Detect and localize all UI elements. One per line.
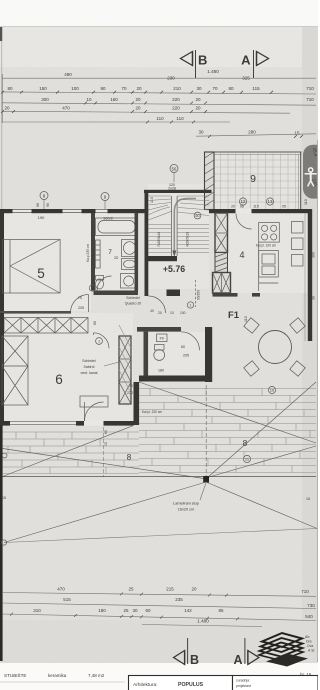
svg-text:85: 85: [218, 608, 224, 613]
svg-text:B: B: [190, 653, 199, 667]
kitchen stove: [259, 223, 280, 243]
grid bubble 9: [101, 193, 109, 210]
svg-text:7,48 m2: 7,48 m2: [88, 673, 105, 678]
upper vent shaft column: [215, 213, 228, 253]
main top exterior wall right part: [209, 209, 312, 213]
svg-text:Ka.p 235 cm: Ka.p 235 cm: [86, 244, 90, 262]
terrace 9 left wall hatched: [205, 152, 215, 210]
svg-text:16x20 cm: 16x20 cm: [178, 508, 194, 512]
svg-text:325: 325: [242, 76, 250, 81]
top dim line row 2: [2, 86, 316, 94]
room 6 desk: [80, 396, 108, 407]
terrace room 9 tile grid: [205, 152, 302, 210]
bath bottom wall: [94, 291, 139, 296]
terrace door arc from room: [85, 402, 104, 421]
svg-text:180: 180: [98, 608, 106, 613]
svg-text:A St.: A St.: [307, 649, 315, 653]
room 5 bed: [3, 240, 61, 294]
svg-text:210: 210: [173, 86, 181, 91]
left edge top dark mark: [0, 27, 2, 41]
svg-text:300: 300: [312, 252, 316, 258]
bath bidet unit: [122, 259, 138, 270]
section marker A bottom: [233, 638, 258, 667]
left edge dim connector: [1, 74, 3, 123]
svg-text:50: 50: [195, 214, 199, 218]
lower brace right: [206, 482, 317, 529]
svg-text:20: 20: [231, 205, 235, 209]
svg-text:115: 115: [252, 86, 260, 91]
paper tone: darker right column: [302, 27, 318, 664]
svg-text:30: 30: [132, 608, 138, 613]
svg-text:A: A: [233, 653, 242, 667]
stair steps upper winders right: [178, 196, 210, 216]
leader line schiedel: [104, 362, 119, 366]
corridor lower wall segment: [167, 290, 181, 297]
door arc room 6 top right: [94, 333, 110, 349]
room interior lighter tones: [4, 153, 307, 421]
svg-text:100: 100: [71, 86, 79, 91]
svg-text:7: 7: [108, 249, 112, 256]
wall between room 5 and bath: [91, 213, 95, 291]
svg-text:20: 20: [135, 106, 141, 111]
svg-text:4x28/5x18: 4x28/5x18: [186, 232, 190, 247]
column leader line: [200, 483, 206, 500]
kitchen bottom wall: [213, 293, 261, 297]
svg-text:70: 70: [212, 86, 218, 91]
room 5 left exterior wall: [0, 209, 4, 425]
svg-text:Lamelirani stup: Lamelirani stup: [173, 502, 199, 506]
room 6 bottom wall with window: [0, 421, 134, 426]
svg-text:60: 60: [240, 205, 244, 209]
top dim line row 1: [2, 72, 316, 81]
bath right wall: [135, 213, 139, 291]
bottom dim line row 3: [2, 608, 316, 621]
decking right planks: [139, 389, 316, 473]
svg-text:15: 15: [306, 497, 310, 501]
top dim line row 4: [2, 106, 290, 114]
stair steps upper winders left: [148, 196, 172, 220]
corridor door dashed line: [196, 280, 201, 307]
svg-text:110: 110: [176, 116, 184, 121]
svg-text:4: 4: [239, 250, 244, 260]
svg-text:280: 280: [248, 130, 256, 135]
bath door arc: [97, 276, 112, 291]
svg-text:100: 100: [180, 311, 186, 315]
bottom dim line row 1: [2, 587, 316, 597]
svg-text:1: 1: [190, 304, 192, 308]
architect logo stacked plates: [259, 633, 308, 667]
circled 11 on terrace: [243, 455, 250, 462]
svg-text:150: 150: [39, 86, 47, 91]
svg-text:80: 80: [228, 86, 234, 91]
svg-text:215: 215: [166, 587, 174, 592]
lower brace left: [4, 482, 206, 543]
svg-text:F1: F1: [228, 310, 240, 321]
right exterior wall: [308, 209, 312, 341]
svg-text:Dra: Dra: [306, 640, 312, 644]
bottom dim line row 4: [142, 619, 262, 627]
svg-text:142: 142: [184, 608, 192, 613]
section marker A top: [241, 50, 268, 78]
svg-text:10: 10: [170, 311, 174, 315]
svg-text:2: 2: [91, 287, 93, 291]
door bubble 2b: [89, 285, 95, 291]
stair steps left flight: [148, 225, 171, 253]
paper tone: darker bottom band: [0, 620, 318, 664]
svg-text:8: 8: [243, 439, 248, 448]
terrace 9 railing right: [300, 152, 302, 209]
axis circle mid left: [2, 453, 7, 458]
vent shaft column room 6: [119, 325, 131, 404]
logo side text: [304, 635, 315, 653]
svg-text:Sabirni: Sabirni: [84, 365, 95, 369]
svg-text:25: 25: [123, 608, 129, 613]
WC right thick wall: [205, 327, 212, 382]
bath toilet: [96, 276, 104, 290]
decking plank joints: [8, 389, 310, 474]
svg-text:90/200: 90/200: [197, 290, 201, 300]
circled 10 on terrace: [268, 386, 275, 393]
shaft wall strip to lower shaft: [215, 253, 228, 273]
section marker B top: [181, 50, 208, 78]
svg-text:60: 60: [181, 345, 185, 349]
svg-text:710: 710: [306, 97, 314, 102]
kitchen counter with sink: [259, 242, 279, 291]
svg-text:235: 235: [175, 597, 183, 602]
svg-text:10: 10: [270, 388, 275, 393]
room 5/6 dividing wall: [0, 311, 71, 314]
right overlay pill with person icon: [303, 145, 319, 199]
terrace bottom edge line: [3, 476, 316, 478]
svg-text:vent. kanal: vent. kanal: [81, 371, 98, 375]
window gap 3 in top wall: [96, 209, 108, 214]
door bubble 1b: [96, 338, 103, 345]
kitchen door swing arc: [236, 214, 252, 230]
svg-text:Arhitektura:: Arhitektura:: [133, 682, 158, 688]
WC door arc: [181, 332, 200, 351]
stair bottom wall: [148, 256, 177, 261]
bottom dim line row 2: [2, 597, 316, 609]
svg-text:90: 90: [46, 203, 50, 207]
svg-text:30: 30: [312, 296, 316, 300]
svg-text:160: 160: [110, 97, 118, 102]
circled 50 at stair right: [194, 212, 201, 219]
svg-text:205: 205: [78, 306, 84, 310]
stair walk line with arrow: [172, 199, 196, 258]
lamela column: [203, 476, 209, 483]
svg-text:keramika: keramika: [48, 673, 67, 678]
svg-text:220: 220: [172, 97, 180, 102]
WC toilet: [154, 345, 165, 361]
stair steps right flight: [178, 225, 210, 253]
dim tick slashes top: [1, 91, 303, 138]
svg-text:suradnja:: suradnja:: [236, 679, 250, 683]
svg-text:20: 20: [195, 106, 201, 111]
svg-text:20: 20: [136, 86, 142, 91]
kitchen door gap in top wall: [236, 209, 252, 214]
bottom dim tick slashes: [10, 593, 239, 621]
terrace 9 railing top: [212, 151, 302, 153]
svg-text:540: 540: [305, 614, 313, 619]
svg-text:2D: 2D: [114, 256, 119, 260]
svg-text:F9: F9: [160, 337, 164, 341]
svg-text:515: 515: [63, 597, 71, 602]
grid bubble 12 above kitchen: [239, 198, 246, 205]
svg-text:A: A: [241, 53, 251, 68]
scan grain: [0, 0, 1, 1]
svg-text:490: 490: [64, 72, 72, 77]
door bubble corridor: [187, 302, 193, 308]
corridor door arc at stair exit: [149, 296, 166, 313]
svg-text:6: 6: [55, 372, 63, 387]
WC bottom wall: [139, 376, 212, 382]
svg-text:115: 115: [253, 205, 259, 209]
svg-text:8: 8: [127, 453, 132, 462]
svg-text:220: 220: [172, 106, 180, 111]
right scan edge line: [316, 140, 318, 662]
top dim line row 3: [2, 97, 316, 105]
room 6 left wall: [0, 313, 4, 425]
svg-text:10: 10: [86, 97, 92, 102]
WC left wall: [144, 332, 149, 376]
svg-text:730: 730: [307, 603, 315, 608]
top dim line row 6 (terrace): [196, 130, 316, 137]
svg-text:205: 205: [183, 354, 189, 358]
left scan edge dark line: [0, 296, 3, 661]
title strip texts: [4, 672, 105, 678]
svg-text:13: 13: [267, 199, 273, 204]
svg-text:60: 60: [145, 608, 151, 613]
svg-text:90: 90: [36, 203, 40, 207]
table chair bottom right: [290, 361, 305, 376]
table chair top left: [244, 318, 259, 333]
svg-text:310: 310: [33, 608, 41, 613]
stair block left wall: [145, 190, 149, 296]
svg-text:220: 220: [127, 391, 133, 395]
svg-text:190: 190: [38, 215, 45, 220]
svg-text:90: 90: [100, 86, 106, 91]
svg-text:5: 5: [37, 266, 45, 281]
svg-text:12: 12: [240, 199, 246, 204]
svg-text:20: 20: [158, 311, 162, 315]
WC top wall: [137, 327, 181, 332]
svg-text:300: 300: [41, 97, 49, 102]
round table: [259, 331, 292, 364]
svg-text:1.480: 1.480: [207, 69, 219, 74]
svg-text:10: 10: [104, 442, 108, 446]
left scan edge faint upper line: [1, 27, 2, 297]
bath 7 bathtub horizontal: [96, 218, 138, 236]
svg-text:POPULUS: POPULUS: [178, 682, 204, 688]
svg-text:70: 70: [78, 296, 82, 300]
window gap 1 in top wall: [13, 209, 32, 214]
svg-text:80: 80: [7, 86, 13, 91]
stair block top wall: [144, 190, 212, 193]
svg-text:60: 60: [104, 430, 108, 434]
decking left planks: [3, 432, 139, 474]
svg-text:Alc: Alc: [304, 635, 310, 639]
svg-text:70: 70: [129, 384, 133, 388]
lower tie line: [4, 529, 317, 543]
table chair bottom left: [244, 361, 259, 376]
svg-text:110: 110: [156, 116, 164, 121]
grid bubble 56 above stairs: [170, 165, 178, 183]
svg-text:05: 05: [282, 205, 286, 209]
bottom white title strip: [0, 663, 318, 690]
svg-text:56: 56: [172, 166, 177, 171]
terrace diagonal braces: [3, 382, 316, 479]
kitchen wall seats: [292, 222, 304, 267]
svg-text:15: 15: [2, 496, 6, 500]
svg-text:60: 60: [93, 321, 97, 325]
svg-text:40: 40: [150, 309, 154, 313]
svg-text:25: 25: [128, 587, 134, 592]
svg-text:710: 710: [306, 86, 314, 91]
svg-text:Quadro 20: Quadro 20: [125, 302, 142, 306]
svg-text:110: 110: [304, 199, 308, 205]
svg-text:Ova: Ova: [307, 644, 313, 648]
right wall inner hatch line: [304, 213, 306, 341]
svg-text:180: 180: [158, 369, 164, 373]
svg-text:30: 30: [198, 130, 204, 135]
svg-text:20: 20: [4, 106, 10, 111]
svg-text:110: 110: [244, 316, 248, 322]
WC F9 box: [157, 334, 168, 342]
bath sink unit: [122, 240, 138, 257]
paper top edge seam: [0, 26, 318, 27]
svg-text:9: 9: [250, 173, 256, 185]
svg-text:B: B: [198, 53, 207, 68]
svg-text:7x28/5x18: 7x28/5x18: [157, 232, 161, 247]
svg-text:1: 1: [98, 340, 100, 344]
title block box 2: [233, 676, 319, 690]
svg-text:70: 70: [121, 86, 127, 91]
column axis dashed line: [205, 385, 207, 477]
grid bubble 13 above kitchen: [266, 198, 273, 205]
room 6 bed: [2, 336, 28, 405]
svg-text:projektant: projektant: [236, 684, 251, 688]
lower vent shaft column: [213, 273, 231, 294]
paper tone: lighter top band: [0, 27, 318, 67]
window gap 2 in top wall: [63, 209, 82, 214]
left axis dashed line: [103, 427, 105, 477]
svg-text:470: 470: [57, 587, 65, 592]
title block box 1: [129, 676, 233, 690]
svg-text:230: 230: [167, 76, 175, 81]
svg-text:30: 30: [196, 86, 202, 91]
grid bubble 8: [40, 192, 48, 210]
axis circle bottom left: [1, 540, 6, 545]
svg-text:STUBIŠTE: STUBIŠTE: [4, 672, 26, 678]
svg-text:Schiedel: Schiedel: [126, 296, 140, 300]
title strip underline: [0, 681, 125, 683]
svg-text:Kal pl. 220 cm: Kal pl. 220 cm: [142, 410, 163, 414]
stair center stringer: [171, 196, 177, 256]
room 6 wardrobe strip: [4, 318, 88, 334]
kal pl 220 shelf wall: [134, 382, 140, 425]
svg-text:1.480: 1.480: [197, 619, 209, 624]
svg-text:20: 20: [195, 97, 201, 102]
room 5 door arc: [71, 295, 89, 313]
svg-text:+5.76: +5.76: [163, 264, 185, 274]
section marker B bottom: [174, 638, 199, 667]
svg-text:15: 15: [294, 131, 300, 136]
bath washing machine: [121, 274, 138, 289]
svg-text:20: 20: [191, 587, 197, 592]
main top exterior wall left part: [0, 209, 148, 213]
svg-text:710: 710: [301, 589, 309, 594]
svg-text:20: 20: [135, 97, 141, 102]
svg-text:470: 470: [62, 106, 70, 111]
table chair top right: [290, 318, 305, 333]
svg-text:Schiedel: Schiedel: [82, 359, 96, 363]
bath towel radiator: [96, 240, 101, 268]
top dim line row 5: [2, 116, 230, 122]
